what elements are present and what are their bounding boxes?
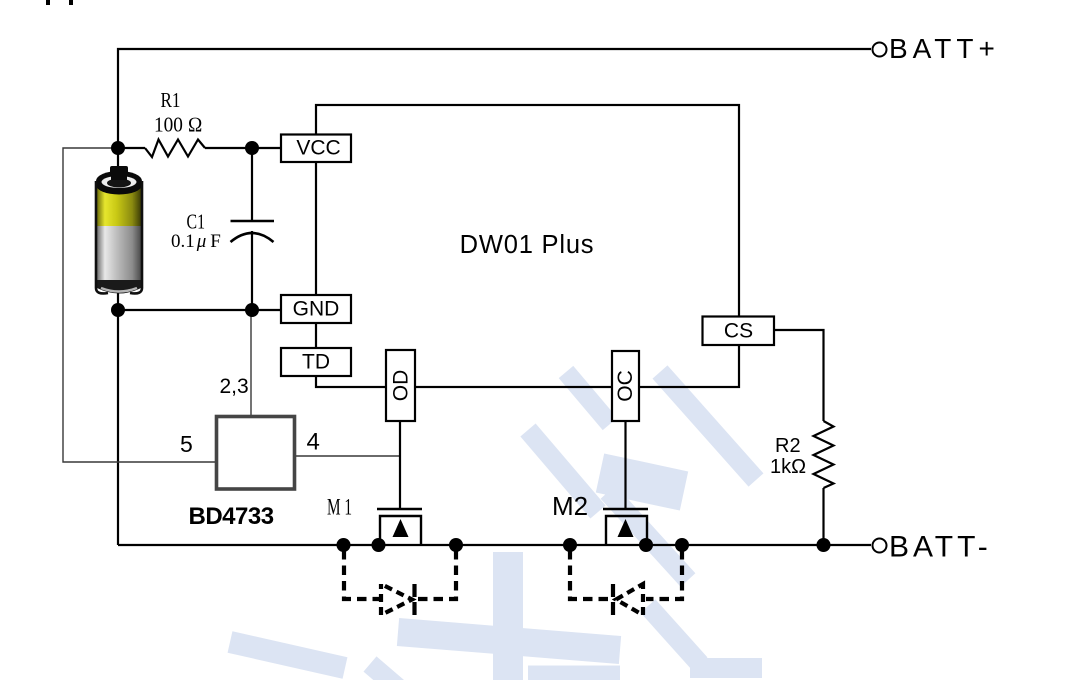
IC BD4733 box [217,417,295,490]
IC DW01 outline [316,105,739,387]
svg-text:4: 4 [307,429,320,456]
wire BATT- rail [118,544,871,546]
svg-text:M 1: M 1 [327,495,352,520]
pin box OC [612,351,639,421]
svg-text:BATT+: BATT+ [889,33,1000,64]
wire left vertical to BATT- [117,310,119,545]
body diode M2 dashed loop [570,550,682,615]
svg-text:R2: R2 [775,435,801,457]
svg-text:2,3: 2,3 [220,375,249,398]
svg-text:BATT-: BATT- [889,531,992,564]
wire OC gate [624,421,626,509]
wire GND rail [118,309,281,311]
wire pin 2,3 thin [250,310,252,417]
junction node dots [111,141,831,552]
wire CS to R2 [774,330,824,421]
wire OD gate [399,421,401,509]
svg-text:100 Ω: 100 Ω [154,113,203,137]
capacitor C1 top plate [231,220,275,223]
svg-text:OD: OD [390,370,413,402]
svg-text:1kΩ: 1kΩ [770,456,806,478]
wire C1 top [251,148,253,221]
terminal BATT- [873,531,992,564]
svg-text:0.1μF: 0.1μF [171,231,221,252]
wire battery bottom lead [117,292,119,310]
wire R2 to BATT- [822,488,824,545]
svg-text:R1: R1 [161,88,181,112]
watermark [230,372,762,680]
pin box GND [281,295,351,323]
transistor M2 [603,509,648,545]
wire BATT+ top rail [118,49,871,148]
resistor R2 [814,421,834,488]
svg-text:DW01 Plus: DW01 Plus [460,231,595,259]
wire node to R1 [118,147,145,149]
svg-text:GND: GND [293,298,340,321]
resistor R1 [145,140,205,158]
svg-text:5: 5 [180,431,193,457]
battery cell graphic [96,166,142,294]
pin box CS [703,317,775,346]
wire C1 bottom [251,231,253,310]
pin box VCC [281,135,351,163]
terminal BATT+ [873,33,1000,64]
wire pin 4 thin [295,455,400,457]
pin box TD [281,348,351,376]
svg-text:BD4733: BD4733 [189,503,274,530]
wire R1 to VCC [205,147,281,149]
pin box OD [386,350,415,421]
svg-text:TD: TD [302,351,330,374]
body diode M1 dashed loop [344,550,456,615]
cropped text marks top-left [46,0,50,5]
wire pin 5 thin [63,148,216,462]
capacitor C1 bottom curved plate [231,233,274,242]
svg-text:VCC: VCC [296,137,340,160]
svg-text:CS: CS [724,320,753,343]
transistor M1 [377,509,422,545]
svg-text:M2: M2 [552,491,588,521]
svg-text:OC: OC [614,370,637,402]
svg-text:C1: C1 [187,210,206,234]
wire battery top lead [117,148,119,171]
